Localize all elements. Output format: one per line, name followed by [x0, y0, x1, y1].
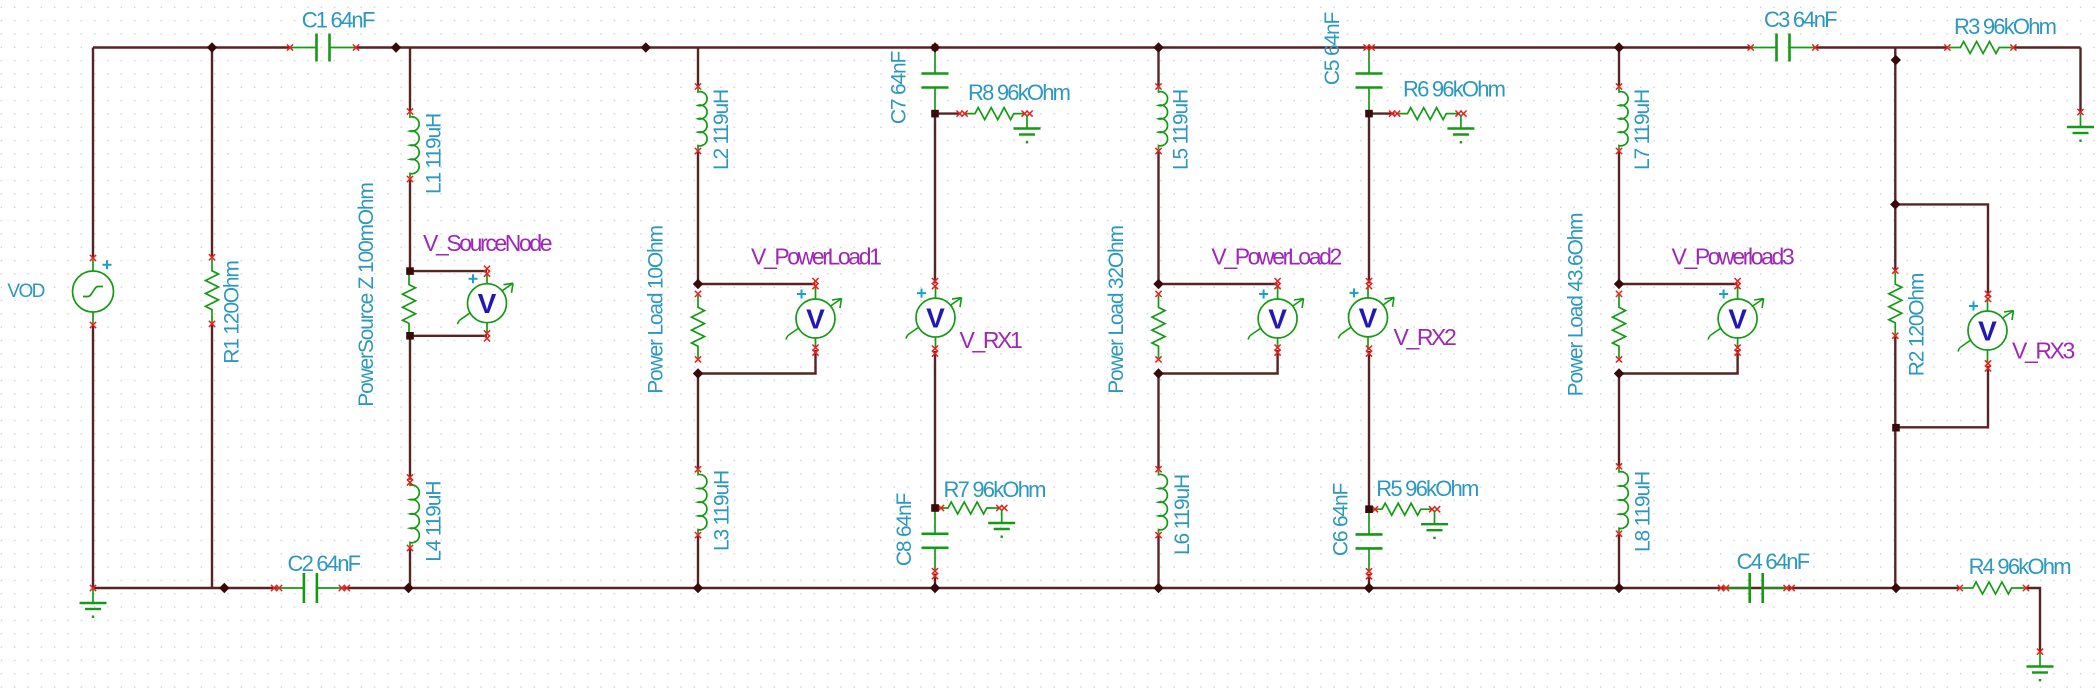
terminal x Power Load 1 bottom: [695, 356, 701, 362]
terminal x C2 left: [271, 585, 277, 591]
terminal x C1 left: [287, 44, 293, 50]
terminal x bottom-left corner: [90, 585, 96, 591]
resistor R8: [964, 108, 1026, 120]
resistor PowerSource Z: [403, 273, 416, 335]
svg-text:V: V: [1359, 302, 1378, 333]
wire V_RX1 to R7 node: [934, 351, 936, 508]
svg-text:R4 96kOhm: R4 96kOhm: [1969, 554, 2071, 579]
terminal x C5 top: [1364, 44, 1370, 50]
node Power Load 1 bottom: [693, 368, 703, 378]
wire R1 top segment: [211, 48, 213, 258]
terminal x V_SourceNode bottom: [484, 330, 490, 336]
svg-text:PowerSource Z 100mOhm: PowerSource Z 100mOhm: [355, 183, 378, 407]
terminal x L2 top: [695, 83, 701, 89]
node R5 C6 junction: [1365, 505, 1373, 513]
wire top rail left segment: [93, 46, 290, 48]
ground at R3: [2080, 114, 2082, 128]
capacitor C8: [934, 510, 936, 573]
wire L1 top lead: [409, 48, 411, 112]
wire V_PowerLoad1 bottom stub: [698, 350, 816, 374]
voltmeter V_PowerLoad2: [1248, 286, 1304, 349]
node right column top: [1891, 55, 1901, 65]
resistor R2: [1889, 272, 1902, 334]
svg-text:R6 96kOhm: R6 96kOhm: [1403, 77, 1505, 102]
node L7 top rail: [1614, 42, 1624, 52]
svg-text:V: V: [1978, 316, 1997, 347]
terminal x R1 top: [209, 254, 215, 260]
svg-text:L3 119uH: L3 119uH: [711, 471, 734, 551]
terminal x C6 bottom: [1366, 568, 1372, 574]
terminal x R6 left: [1389, 111, 1395, 117]
terminal x L1 bottom: [407, 176, 413, 182]
terminal x C8 bottom: [932, 568, 938, 574]
wire V_Powerload3 top stub: [1619, 283, 1738, 285]
wire L1 to PowerSource Z: [409, 179, 411, 271]
terminal x R4 left: [1957, 585, 1963, 591]
svg-text:Power Load 32Ohm: Power Load 32Ohm: [1105, 226, 1128, 394]
ground at VOD: [92, 590, 94, 604]
svg-text:C1 64nF: C1 64nF: [302, 8, 375, 33]
node Power Load 3 top: [1614, 279, 1624, 289]
terminal x R1 bottom: [209, 321, 215, 327]
inductor L4: [410, 481, 419, 546]
wire L2 to Power Load 1: [697, 151, 699, 284]
wire L8 to bottom rail: [1618, 534, 1620, 588]
terminal x Power Load 1 top: [695, 291, 701, 297]
svg-text:VOD: VOD: [7, 281, 44, 302]
svg-text:C4 64nF: C4 64nF: [1737, 549, 1810, 574]
svg-text:V_PowerLoad1: V_PowerLoad1: [751, 244, 881, 270]
terminal x VOD bottom: [90, 322, 96, 328]
terminal x V_RX3 bottom: [1985, 360, 1991, 366]
wire L3 to bottom rail: [697, 535, 699, 588]
terminal x L3 top: [695, 466, 701, 472]
terminal x C3 right: [1812, 44, 1818, 50]
terminal x R5 right: [1429, 506, 1435, 512]
terminal x C7 top: [932, 44, 938, 50]
terminal x L4 bottom: [407, 545, 413, 551]
voltmeter V_Powerload3: [1708, 286, 1764, 349]
resistor R3: [1949, 42, 2012, 54]
terminal x R7 right: [996, 505, 1002, 511]
wire right column top: [1894, 48, 1896, 271]
voltmeter V_RX3: [1958, 298, 2014, 365]
svg-text:R2 120Ohm: R2 120Ohm: [1906, 273, 1929, 376]
node left of L2 branch: [641, 42, 651, 52]
svg-text:C8 64nF: C8 64nF: [893, 494, 916, 567]
node V_RX3 top tap: [1890, 199, 1900, 209]
capacitor C3: [1751, 47, 1816, 49]
svg-text:V_RX2: V_RX2: [1394, 324, 1456, 350]
voltmeter V_PowerLoad1: [786, 286, 842, 349]
inductor L6: [1159, 471, 1168, 534]
voltmeter V_RX1: [906, 285, 962, 350]
wire C8 to bottom rail: [934, 574, 936, 589]
svg-text:V: V: [926, 303, 945, 334]
node Power Load 3 bottom: [1614, 368, 1624, 378]
capacitor C1: [290, 47, 356, 49]
terminal x C7 bottom: [932, 111, 938, 117]
terminal x V_RX1 top: [932, 278, 938, 284]
terminal x L7 top: [1616, 83, 1622, 89]
resistor R5: [1371, 503, 1434, 515]
node PowerSource Z top: [406, 267, 414, 275]
terminal x L3 bottom: [695, 532, 701, 538]
svg-text:R8 96kOhm: R8 96kOhm: [968, 80, 1070, 105]
resistor Power Load 3: [1613, 295, 1626, 358]
node Power Load 2 top: [1153, 279, 1163, 289]
terminal x VOD top: [90, 255, 96, 261]
wire V_Powerload3 bottom stub: [1619, 350, 1738, 374]
wire Power Load 3 to L8: [1618, 374, 1620, 467]
node C7 top rail: [930, 42, 940, 52]
terminal x C3 left: [1748, 44, 1754, 50]
svg-text:V_PowerLoad2: V_PowerLoad2: [1211, 244, 1341, 270]
inductor L5: [1159, 88, 1168, 150]
terminal x R8 left: [957, 111, 963, 117]
capacitor C7: [934, 49, 936, 112]
node C8 bottom rail: [930, 583, 940, 593]
terminal x L6 bottom: [1155, 532, 1161, 538]
wire R6 stub: [1369, 112, 1395, 114]
wire top rail far-right segment: [2013, 46, 2080, 48]
terminal x Power Load 2 top: [1155, 291, 1161, 297]
terminal x R7 left: [938, 505, 944, 511]
svg-text:R3 96kOhm: R3 96kOhm: [1954, 14, 2056, 39]
voltage source VOD: [73, 260, 114, 324]
wire Power Load 1 to L3: [697, 374, 699, 470]
terminal x R8 right: [1022, 111, 1028, 117]
resistor R4: [1961, 582, 2024, 594]
terminal x V_PowerLoad1 bottom: [812, 345, 818, 351]
wire bottom rail right stub: [2026, 588, 2040, 652]
terminal x R3 ground: [2077, 109, 2083, 115]
node R7 C8 junction: [931, 504, 939, 512]
svg-text:V_SourceNode: V_SourceNode: [423, 230, 552, 256]
wire R8 stub: [935, 112, 961, 114]
terminal x V_RX2 top: [1366, 278, 1372, 284]
wire bottom rail main segment: [344, 587, 1960, 589]
voltmeter V_RX2: [1339, 285, 1395, 350]
terminal x L8 bottom: [1616, 531, 1622, 537]
svg-text:V_RX3: V_RX3: [2012, 338, 2074, 364]
wire V_PowerLoad2 top stub: [1159, 283, 1278, 285]
ground at R8: [1026, 115, 1028, 129]
wire C6 to bottom rail: [1368, 574, 1370, 588]
node V_RX3 bottom tap: [1892, 424, 1900, 432]
terminal x C4 right: [1784, 585, 1790, 591]
terminal x V_SourceNode top: [484, 266, 490, 272]
terminal x R4 ground: [2037, 649, 2043, 655]
terminal x L5 bottom: [1155, 148, 1161, 154]
svg-text:R7 96kOhm: R7 96kOhm: [944, 477, 1046, 502]
svg-text:C3 64nF: C3 64nF: [1764, 7, 1837, 32]
svg-text:C7 64nF: C7 64nF: [887, 52, 910, 125]
terminal x R3 left: [1944, 44, 1950, 50]
terminal x V_PowerLoad2 top: [1275, 278, 1281, 284]
wire L4 to bottom rail: [409, 548, 411, 588]
wire V_SourceNode bottom stub: [410, 335, 487, 337]
wire right column bottom: [1894, 336, 1896, 588]
wire V_SourceNode top stub: [410, 270, 487, 272]
wire bottom rail left segment: [93, 587, 277, 589]
node L8 bottom rail: [1614, 583, 1624, 593]
wire V_PowerLoad2 bottom stub: [1159, 350, 1278, 374]
node PowerSource Z bottom: [406, 332, 414, 340]
resistor R1: [206, 259, 219, 323]
terminal x L8 top: [1616, 463, 1622, 469]
inductor L3: [698, 471, 707, 534]
inductor L8: [1619, 468, 1628, 532]
voltmeter V_SourceNode: [458, 273, 514, 335]
terminal x V_PowerLoad2 bottom: [1275, 345, 1281, 351]
svg-text:V: V: [1728, 304, 1747, 335]
terminal x C2 right: [339, 585, 345, 591]
terminal x Power Load 3 top: [1616, 291, 1622, 297]
svg-text:C2 64nF: C2 64nF: [288, 551, 361, 576]
svg-text:C6 64nF: C6 64nF: [1330, 484, 1353, 557]
terminal x Power Load 2 bottom: [1155, 356, 1161, 362]
node Power Load 2 bottom: [1153, 368, 1163, 378]
terminal x C5 bottom: [1366, 111, 1372, 117]
wire V_PowerLoad1 top stub: [698, 283, 816, 285]
svg-text:Power Load 10Ohm: Power Load 10Ohm: [645, 226, 668, 394]
ground at R4: [2039, 653, 2041, 667]
node Power Load 1 top: [693, 279, 703, 289]
node L3 bottom rail: [693, 583, 703, 593]
resistor R7: [937, 502, 1001, 514]
resistor Power Load 2: [1152, 295, 1165, 358]
terminal x R4 right: [2023, 585, 2029, 591]
node C7 R8 junction: [931, 110, 939, 118]
terminal x L4 top: [407, 474, 413, 480]
svg-text:L8 119uH: L8 119uH: [1632, 472, 1655, 552]
wire V_RX3 bottom stub: [1896, 366, 1988, 428]
terminal x R6 right: [1455, 111, 1461, 117]
node C6 bottom rail: [1364, 583, 1374, 593]
terminal x C4 left: [1718, 585, 1724, 591]
node L6 bottom rail: [1153, 583, 1163, 593]
capacitor C5: [1368, 49, 1370, 112]
terminal x C1 right: [353, 44, 359, 50]
wire top rail middle segment: [356, 46, 1751, 48]
ground at R6: [1460, 115, 1462, 129]
inductor L1: [410, 113, 419, 178]
terminal x V_Powerload3 top: [1735, 278, 1741, 284]
terminal x L1 top: [407, 108, 413, 114]
terminal x V_RX3 top: [1985, 291, 1991, 297]
node right column bottom rail: [1891, 583, 1901, 593]
wire L7 top lead: [1618, 48, 1620, 87]
capacitor C2: [277, 587, 345, 589]
wire C7 to V_RX1: [934, 114, 936, 284]
terminal x V_PowerLoad1 top: [812, 278, 818, 284]
inductor L7: [1619, 88, 1628, 150]
wire top rail right segment: [1815, 46, 1947, 48]
wire R3 ground drop: [2079, 48, 2081, 113]
resistor R6: [1396, 108, 1459, 120]
wire L2 top lead: [697, 48, 699, 87]
svg-text:L7 119uH: L7 119uH: [1631, 90, 1654, 170]
svg-text:L1 119uH: L1 119uH: [423, 114, 446, 194]
terminal x L7 bottom: [1616, 148, 1622, 154]
node L4 bottom rail: [403, 583, 413, 593]
svg-text:R5 96kOhm: R5 96kOhm: [1376, 476, 1478, 501]
node R1 top rail: [207, 42, 217, 52]
wire V_RX2 to R5 node: [1368, 351, 1370, 509]
capacitor C4: [1723, 587, 1789, 589]
svg-text:L6 119uH: L6 119uH: [1171, 475, 1194, 555]
inductor L2: [698, 88, 707, 150]
terminal x L6 top: [1155, 466, 1161, 472]
svg-text:V: V: [1268, 304, 1287, 335]
wire V_RX3 top stub: [1895, 204, 1988, 296]
node C5 R6 junction: [1365, 110, 1373, 118]
svg-text:C5 64nF: C5 64nF: [1321, 13, 1344, 86]
svg-text:L2 119uH: L2 119uH: [710, 90, 733, 170]
terminal x R2 top: [1892, 268, 1898, 274]
wire PowerSource Z to L4: [409, 336, 411, 480]
terminal x V_RX1 bottom: [932, 346, 938, 352]
svg-text:L5 119uH: L5 119uH: [1170, 90, 1193, 170]
node L5 top rail: [1153, 42, 1163, 52]
wire L6 to bottom rail: [1157, 535, 1159, 588]
svg-text:L4 119uH: L4 119uH: [423, 482, 446, 562]
terminal x Power Load 3 bottom: [1616, 356, 1622, 362]
ground at R5: [1434, 511, 1436, 525]
svg-text:V_Powerload3: V_Powerload3: [1672, 244, 1794, 270]
terminal x V_Powerload3 bottom: [1735, 345, 1741, 351]
wire VOD bottom drop: [92, 325, 94, 588]
terminal x R3 right: [2010, 44, 2016, 50]
wire C5 to V_RX2: [1368, 114, 1370, 284]
wire Power Load 2 to L6: [1157, 374, 1159, 470]
terminal x L2 bottom: [695, 148, 701, 154]
node bottom rail near R1: [219, 583, 229, 593]
terminal x R2 bottom: [1892, 333, 1898, 339]
wire L5 to Power Load 2: [1157, 151, 1159, 284]
wire VOD top drop: [92, 48, 94, 259]
wire R1 bottom segment: [211, 324, 213, 588]
wire L7 to Power Load 3: [1618, 151, 1620, 284]
svg-text:Power Load 43.6Ohm: Power Load 43.6Ohm: [1565, 213, 1588, 396]
terminal x R5 left: [1372, 506, 1378, 512]
capacitor C6: [1368, 511, 1370, 572]
resistor Power Load 1: [692, 295, 705, 358]
wire L5 top lead: [1157, 48, 1159, 87]
svg-text:V: V: [478, 288, 497, 319]
node left of L1 branch: [391, 42, 401, 52]
svg-text:V: V: [806, 304, 825, 335]
ground at R7: [1001, 510, 1003, 524]
terminal x V_RX2 bottom: [1366, 346, 1372, 352]
terminal x L5 top: [1155, 83, 1161, 89]
svg-text:V_RX1: V_RX1: [960, 327, 1022, 353]
svg-text:R1 120Ohm: R1 120Ohm: [221, 261, 244, 364]
